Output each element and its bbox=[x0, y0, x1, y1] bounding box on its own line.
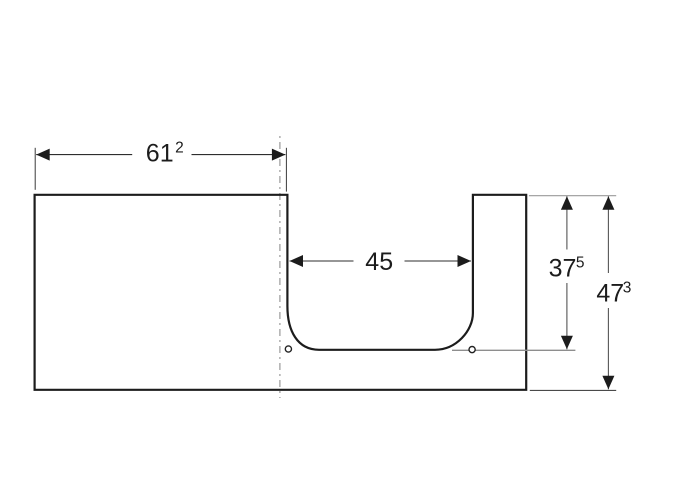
extension line bottom right (for 473) bbox=[530, 389, 616, 391]
label 473 bbox=[596, 280, 631, 308]
svg-text:375: 375 bbox=[549, 255, 585, 283]
arrow up (473) bbox=[602, 196, 614, 210]
countertop outline with basin cutout bbox=[35, 195, 527, 390]
svg-text:45: 45 bbox=[365, 248, 393, 276]
extension line left (for 612) bbox=[34, 148, 36, 190]
drill hole right bbox=[469, 347, 475, 353]
extension line right (for 612) bbox=[285, 148, 287, 192]
drill hole left bbox=[285, 346, 291, 352]
centerline (dash-dot vertical axis) bbox=[279, 136, 281, 398]
dimension line 473 bbox=[607, 196, 609, 389]
label 45 bbox=[365, 248, 393, 276]
arrow right (612) bbox=[272, 149, 286, 161]
arrow up (375) bbox=[561, 196, 573, 210]
arrow left (45) bbox=[290, 255, 304, 267]
label 612 bbox=[146, 140, 184, 168]
extension line top right (shared by 375 and 473) bbox=[529, 195, 616, 197]
dimension line 45 bbox=[290, 260, 472, 262]
arrow down (473) bbox=[602, 376, 614, 390]
dimension line 375 bbox=[566, 196, 568, 349]
dimension line 612 bbox=[36, 154, 285, 156]
arrow right (45) bbox=[458, 255, 472, 267]
arrow down (375) bbox=[561, 336, 573, 350]
label 375 bbox=[549, 255, 585, 283]
svg-text:612: 612 bbox=[146, 140, 184, 168]
extension line at drill-hole level (for 375) bbox=[452, 349, 575, 351]
svg-text:473: 473 bbox=[596, 280, 631, 308]
arrow left (612) bbox=[36, 149, 50, 161]
